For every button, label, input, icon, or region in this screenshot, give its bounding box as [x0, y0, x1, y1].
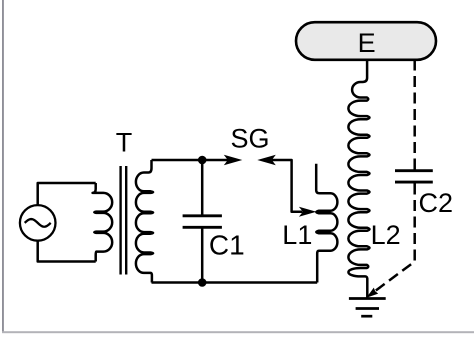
wire: SG right arm down to L1 tap: [272, 160, 303, 212]
svg-text:T: T: [116, 128, 133, 158]
node B junction dot: [198, 278, 207, 287]
capacitor C1 bottom lead: [201, 227, 204, 282]
spark gap SG left electrode arrow: [224, 155, 243, 165]
spark gap SG right electrode arrow: [257, 155, 276, 165]
wire: secondary top to node A: [152, 159, 229, 162]
capacitor C2 dashed lead to ground: [370, 184, 415, 296]
top terminal E: [296, 22, 436, 60]
bottom page border: [2, 331, 474, 333]
transformer T primary winding: [93, 183, 113, 262]
svg-text:C2: C2: [419, 188, 454, 218]
wire: AC top to loop top-left: [38, 183, 96, 205]
capacitor C2: [395, 171, 433, 182]
svg-text:E: E: [358, 28, 376, 58]
svg-text:SG: SG: [231, 124, 270, 154]
AC source G1: [20, 205, 56, 241]
svg-text:C1: C1: [209, 230, 245, 261]
svg-text:L2: L2: [371, 220, 401, 250]
node A junction dot: [198, 156, 207, 165]
capacitor C2 dashed lead from E: [413, 60, 416, 171]
capacitor C1 top lead: [201, 160, 204, 216]
inductor L2: [348, 60, 369, 298]
transformer T secondary winding: [136, 160, 153, 283]
svg-text:L1: L1: [282, 220, 312, 250]
wire: bottom rail: [152, 281, 318, 284]
ground arrow of C2 dashed lead: [366, 288, 378, 298]
L1 tap arrow: [299, 207, 317, 217]
capacitor C1: [183, 216, 222, 228]
transformer T core: [121, 166, 127, 275]
inductor L1: [316, 164, 337, 283]
left page border: [2, 0, 4, 333]
ground: [349, 299, 386, 317]
wire: AC bottom to loop bottom-left: [38, 241, 96, 262]
